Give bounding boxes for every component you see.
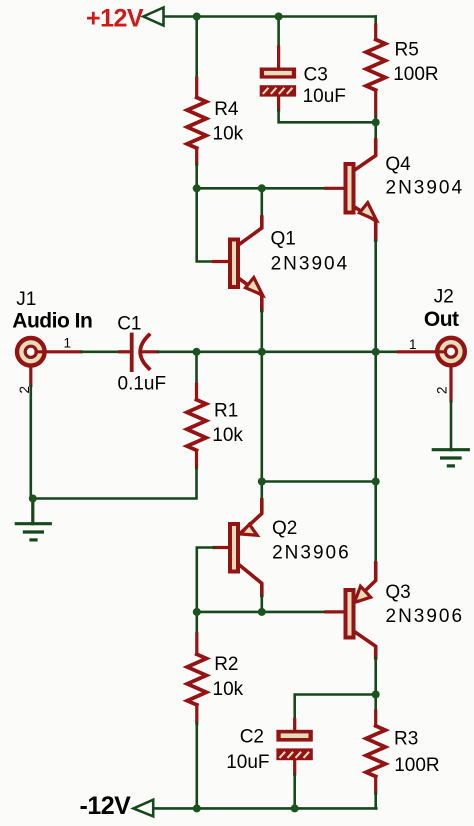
resistor R2 (187, 654, 206, 705)
+12V supply arrow (143, 8, 163, 26)
ground GND1 (16, 499, 50, 540)
label Q1 2N3904 (271, 229, 350, 275)
wire bottom -12V rail (153, 807, 376, 810)
svg-text:Audio In: Audio In (12, 310, 92, 333)
pin Q2 base (214, 546, 228, 549)
wire top +12V rail (164, 15, 376, 18)
connector J2 (437, 338, 465, 366)
label Q2 2N3906 (272, 518, 351, 563)
wire Q1 emitter down (260, 311, 263, 352)
wire Q4 emitter down to output column (374, 240, 377, 352)
label Q4 2N3904 (385, 154, 464, 199)
wire R3 bottom (374, 793, 377, 808)
wire R3 top (374, 695, 377, 712)
label R3 100R (394, 729, 440, 777)
resistor R4 (187, 98, 206, 149)
svg-text:R1: R1 (214, 400, 238, 421)
wire J1-2 down (29, 386, 32, 499)
wire R4 bottom to node (195, 164, 198, 188)
svg-text:10uF: 10uF (303, 86, 346, 107)
wire Q2 emitter stub (260, 482, 263, 500)
svg-text:1: 1 (409, 337, 417, 352)
-12V supply arrow (134, 800, 154, 817)
label R2 10k (213, 654, 244, 700)
pin R1 top (195, 384, 198, 399)
label C2 10uF (226, 727, 269, 773)
connector J1 (17, 338, 45, 366)
wire R5 top (374, 17, 377, 26)
pin R2 top (195, 634, 198, 655)
pin R3 top (374, 711, 377, 726)
wire R1 top (195, 352, 198, 385)
wire J2-2 to ground (450, 401, 453, 450)
svg-text:10uF: 10uF (226, 752, 269, 773)
wire R5 bottom (374, 116, 377, 122)
label Q3 2N3906 (385, 582, 464, 627)
pin Q4 base (326, 187, 344, 190)
capacitor C1 (132, 335, 158, 371)
svg-text:2N3904: 2N3904 (386, 177, 465, 198)
svg-text:J2: J2 (434, 287, 454, 308)
transistor Q3 2N3906 (346, 563, 376, 658)
pin C1 left (120, 350, 130, 353)
wire R4 top (195, 17, 198, 79)
svg-text:100R: 100R (393, 64, 438, 85)
transistor Q1 2N3904 (230, 217, 263, 311)
svg-text:R4: R4 (214, 99, 239, 120)
pin C2 top (293, 720, 296, 731)
wire Q2 collector down (260, 596, 263, 612)
wire R2 bottom (196, 723, 199, 808)
label C3 10uF (303, 64, 346, 107)
svg-text:1: 1 (64, 335, 72, 350)
svg-text:2N3906: 2N3906 (386, 606, 465, 627)
pin R5 top (374, 25, 377, 40)
pin R1 bottom (195, 450, 198, 467)
svg-text:2: 2 (435, 386, 450, 394)
svg-text:J1: J1 (16, 289, 36, 310)
pin R3 bottom (374, 777, 377, 794)
wire C2 bottom (293, 774, 296, 808)
svg-text:Out: Out (424, 308, 459, 331)
label R4 10k (213, 99, 244, 145)
resistor R5 (366, 40, 385, 91)
resistor R1 (187, 400, 206, 451)
svg-text:Q2: Q2 (272, 518, 297, 539)
svg-text:2N3904: 2N3904 (271, 253, 350, 274)
pin C3 bottom (277, 97, 280, 110)
wire y612 rail (197, 611, 326, 614)
resistor R3 (366, 726, 385, 777)
wire Q2 base elbow (197, 548, 214, 612)
wire output column 352-481 (374, 352, 377, 482)
svg-text:R5: R5 (395, 40, 419, 61)
pin Q3 base (326, 610, 344, 613)
svg-text:10k: 10k (213, 124, 244, 145)
wire mid column Q1-Q2 (260, 352, 263, 482)
pin R4 top (195, 78, 198, 98)
svg-text:-12V: -12V (80, 792, 132, 820)
wire R1 bottom elbow to ground (33, 468, 197, 499)
wire Q3 emitter column (374, 482, 377, 564)
pin R4 bottom (195, 148, 198, 164)
pin Q1 base (214, 260, 228, 263)
pin J1-2 (29, 368, 32, 386)
svg-text:C3: C3 (304, 64, 328, 85)
wire R2 top (196, 612, 199, 634)
pin R2 bottom (195, 705, 198, 723)
wire R5 node down to Q4 (374, 122, 377, 140)
pin J1-1 (36, 350, 81, 353)
svg-text:2N3906: 2N3906 (272, 542, 351, 563)
pin J2-1 (399, 350, 446, 353)
wire C2 elbow from Q3 node (295, 695, 376, 720)
svg-text:100R: 100R (394, 755, 439, 776)
label R1 10k (212, 400, 243, 446)
pin J2-2 (449, 368, 452, 402)
wire C1 to J2 output row (158, 350, 399, 353)
wire Q1 collector up to rail (260, 188, 263, 217)
svg-text:Q3: Q3 (385, 582, 410, 603)
ground GND2 (433, 450, 468, 466)
capacitor C2 (276, 730, 312, 760)
svg-text:R2: R2 (214, 654, 238, 675)
wire y481 row (262, 480, 376, 483)
svg-text:10k: 10k (212, 425, 243, 446)
svg-text:C1: C1 (117, 313, 141, 334)
wire Q3 collector down (374, 658, 377, 695)
wire C3 stub (277, 17, 280, 48)
capacitor C3 (260, 68, 296, 97)
svg-text:Q1: Q1 (271, 229, 296, 250)
transistor Q2 2N3906 (230, 500, 262, 596)
svg-text:10k: 10k (213, 679, 244, 700)
svg-text:R3: R3 (394, 729, 418, 750)
wire C3 bottom elbow to R5 bottom (279, 110, 376, 122)
wire Q1 base elbow (197, 188, 214, 261)
pin C2 bottom (293, 760, 296, 774)
pin R5 bottom (374, 90, 377, 116)
svg-text:C2: C2 (240, 727, 264, 748)
svg-text:Q4: Q4 (385, 154, 411, 175)
pin C3 top (277, 47, 280, 68)
label R5 100R (393, 40, 438, 86)
svg-text:+12V: +12V (86, 5, 144, 33)
wire J1 to C1 (81, 350, 120, 353)
wire Q4 base rail y188 (197, 187, 326, 190)
transistor Q4 2N3904 (346, 140, 377, 240)
svg-text:0.1uF: 0.1uF (118, 373, 167, 394)
